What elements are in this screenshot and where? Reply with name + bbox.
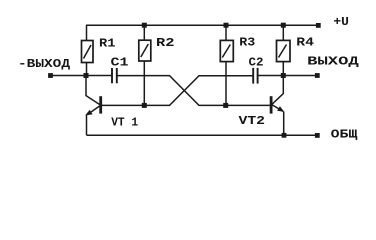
svg-text:ВЫХОД: ВЫХОД [307,55,360,69]
label VT2 [239,114,266,128]
transistor VT2 [271,76,284,136]
junction top rail at R3 [224,23,229,28]
junction R1 / VT1 collector / output [84,73,89,78]
wire bottom common rail [87,134,318,136]
terminal ОБЩ [315,133,320,138]
label R4 [296,36,314,50]
capacitor C1 [112,68,117,83]
resistor R3 [220,25,233,105]
terminal -ВЫХОД [48,73,53,78]
wire +U top rail [86,24,318,26]
svg-text:R4: R4 [296,36,314,50]
wire left output to C1 [51,75,113,77]
svg-text:C1: C1 [111,56,129,70]
svg-text:-ВЫХОД: -ВЫХОД [18,57,71,71]
resistor R2 [139,25,151,105]
label R2 [156,36,175,50]
junction top rail at R4 [281,23,286,28]
svg-text:+U: +U [333,15,349,29]
label ОБЩ [331,127,359,141]
label ВЫХОД [307,55,360,69]
svg-text:R1: R1 [99,36,116,50]
junction VT2 emitter / common rail [282,133,287,138]
svg-text:VT 1: VT 1 [111,116,138,130]
resistor R4 [277,25,291,75]
terminal +U [316,23,321,28]
label +U [333,15,349,29]
label C2 [249,56,264,70]
svg-text:VT2: VT2 [239,114,266,128]
svg-text:C2: C2 [249,56,264,70]
svg-text:R3: R3 [239,36,255,50]
svg-text:R2: R2 [156,36,175,50]
label C1 [111,56,129,70]
junction VT2 base / R3 [223,103,228,108]
resistor R1 [82,25,94,75]
wire VT1 base [102,104,144,106]
label -ВЫХОД [18,57,71,71]
wire VT2 base [226,104,270,106]
junction R4 / VT2 collector / output [281,73,286,78]
wire C2 to output terminal [258,75,317,77]
capacitor C2 [253,68,257,84]
junction top rail at R2 [142,23,147,28]
terminal ВЫХОД [315,73,320,78]
transistor VT1 [85,76,101,136]
label R3 [239,36,255,50]
svg-text:ОБЩ: ОБЩ [331,127,359,141]
label VT1 [111,116,138,130]
label R1 [99,36,116,50]
junction VT1 base / R2 [142,103,147,108]
wire C1 to VT2 base (cross coupling) [117,76,226,106]
wire VT1 base to C2 (cross coupling) [144,76,253,106]
